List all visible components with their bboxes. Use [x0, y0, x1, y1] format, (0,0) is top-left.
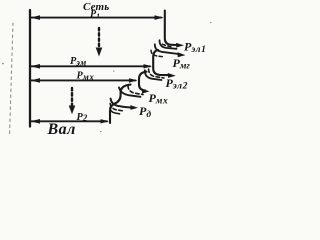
svg-text:Р1: Р1 — [90, 9, 100, 20]
svg-text:Вал: Вал — [47, 121, 76, 137]
svg-text:Рмх: Рмх — [77, 71, 95, 82]
svg-text:Рэм: Рэм — [70, 56, 87, 67]
svg-text:Р2: Р2 — [77, 112, 88, 123]
